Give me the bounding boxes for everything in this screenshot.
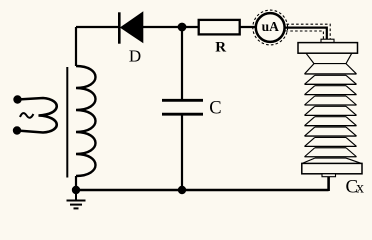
transformer core bbox=[66, 67, 68, 178]
svg-text:Cx: Cx bbox=[346, 176, 365, 197]
insulator bottom cap bbox=[302, 163, 362, 173]
shed 3 underline bbox=[315, 95, 346, 97]
shed 9 rim line bbox=[305, 156, 357, 158]
shed slants to bottom cap bbox=[302, 158, 361, 163]
microammeter uA bbox=[256, 13, 285, 42]
insulator top cap bbox=[298, 43, 358, 54]
AC source terminal top bbox=[13, 95, 21, 103]
resistor R bbox=[199, 20, 240, 35]
shed top narrow line bbox=[314, 63, 346, 65]
shed 1 slants bbox=[305, 64, 357, 74]
shed 4 slants bbox=[305, 96, 357, 105]
shed 3 rim line bbox=[305, 94, 357, 96]
svg-text:D: D bbox=[129, 46, 141, 65]
shed 7 underline bbox=[315, 136, 346, 138]
wire: capacitor top lead bbox=[181, 27, 183, 100]
AC tilde symbol bbox=[20, 113, 33, 118]
shed 7 rim line bbox=[305, 135, 357, 137]
node: ground junction bbox=[72, 186, 80, 194]
shed 8 underline bbox=[315, 147, 346, 149]
insulator top connector bbox=[321, 39, 334, 42]
wire: left vertical from top wire down to coil bbox=[75, 27, 77, 66]
shielded lead: inner dashed bbox=[286, 31, 324, 39]
shed 1 rim line bbox=[305, 73, 357, 75]
shed 9 underline bbox=[315, 157, 346, 159]
shed 6 underline bbox=[315, 126, 346, 128]
svg-text:uA: uA bbox=[262, 19, 280, 34]
shed 5 slants bbox=[305, 106, 357, 115]
secondary winding bbox=[76, 66, 96, 176]
shed 2 underline bbox=[315, 85, 346, 87]
svg-text:R: R bbox=[215, 40, 226, 56]
node: top junction bbox=[178, 23, 187, 32]
shed 3 slants bbox=[305, 86, 357, 95]
ground bbox=[67, 190, 86, 208]
shield dashed circle around meter bbox=[253, 10, 288, 45]
wire: insulator bottom to bottom wire bbox=[327, 177, 330, 192]
shed 8 slants bbox=[305, 137, 357, 146]
shielded lead: solid core bbox=[285, 28, 327, 40]
capacitor C bbox=[162, 100, 203, 114]
wire: coil bottom to ground junction bbox=[75, 176, 77, 190]
shed 4 underline bbox=[315, 105, 346, 107]
insulator sheds bbox=[302, 53, 361, 163]
wire: capacitor bottom lead bbox=[181, 115, 183, 191]
shed 2 slants bbox=[305, 75, 357, 84]
shed 2 rim line bbox=[305, 83, 357, 85]
primary winding bbox=[17, 98, 57, 133]
shed 9 slants bbox=[305, 148, 357, 157]
svg-text:C: C bbox=[209, 98, 221, 118]
shielded lead: outer dashed bbox=[287, 24, 331, 39]
shed 8 rim line bbox=[305, 145, 357, 147]
shed 6 rim line bbox=[305, 125, 357, 127]
wire: top horizontal left of diode bbox=[76, 26, 119, 28]
shed 4 rim line bbox=[305, 104, 357, 106]
shed 1 underline bbox=[315, 74, 346, 76]
shed 6 slants bbox=[305, 117, 357, 126]
node: bottom junction bbox=[178, 186, 186, 194]
wire: resistor to meter bbox=[240, 26, 256, 28]
shed 7 slants bbox=[305, 127, 357, 136]
shed 5 underline bbox=[315, 116, 346, 118]
diode D bbox=[119, 11, 143, 43]
AC source terminal bottom bbox=[13, 126, 21, 134]
shed 5 rim line bbox=[305, 114, 357, 116]
wire: diode to resistor bbox=[143, 26, 199, 28]
shed neck below cap bbox=[306, 53, 352, 63]
insulator bottom connector bbox=[322, 174, 336, 177]
wire: bottom horizontal bbox=[76, 189, 329, 191]
